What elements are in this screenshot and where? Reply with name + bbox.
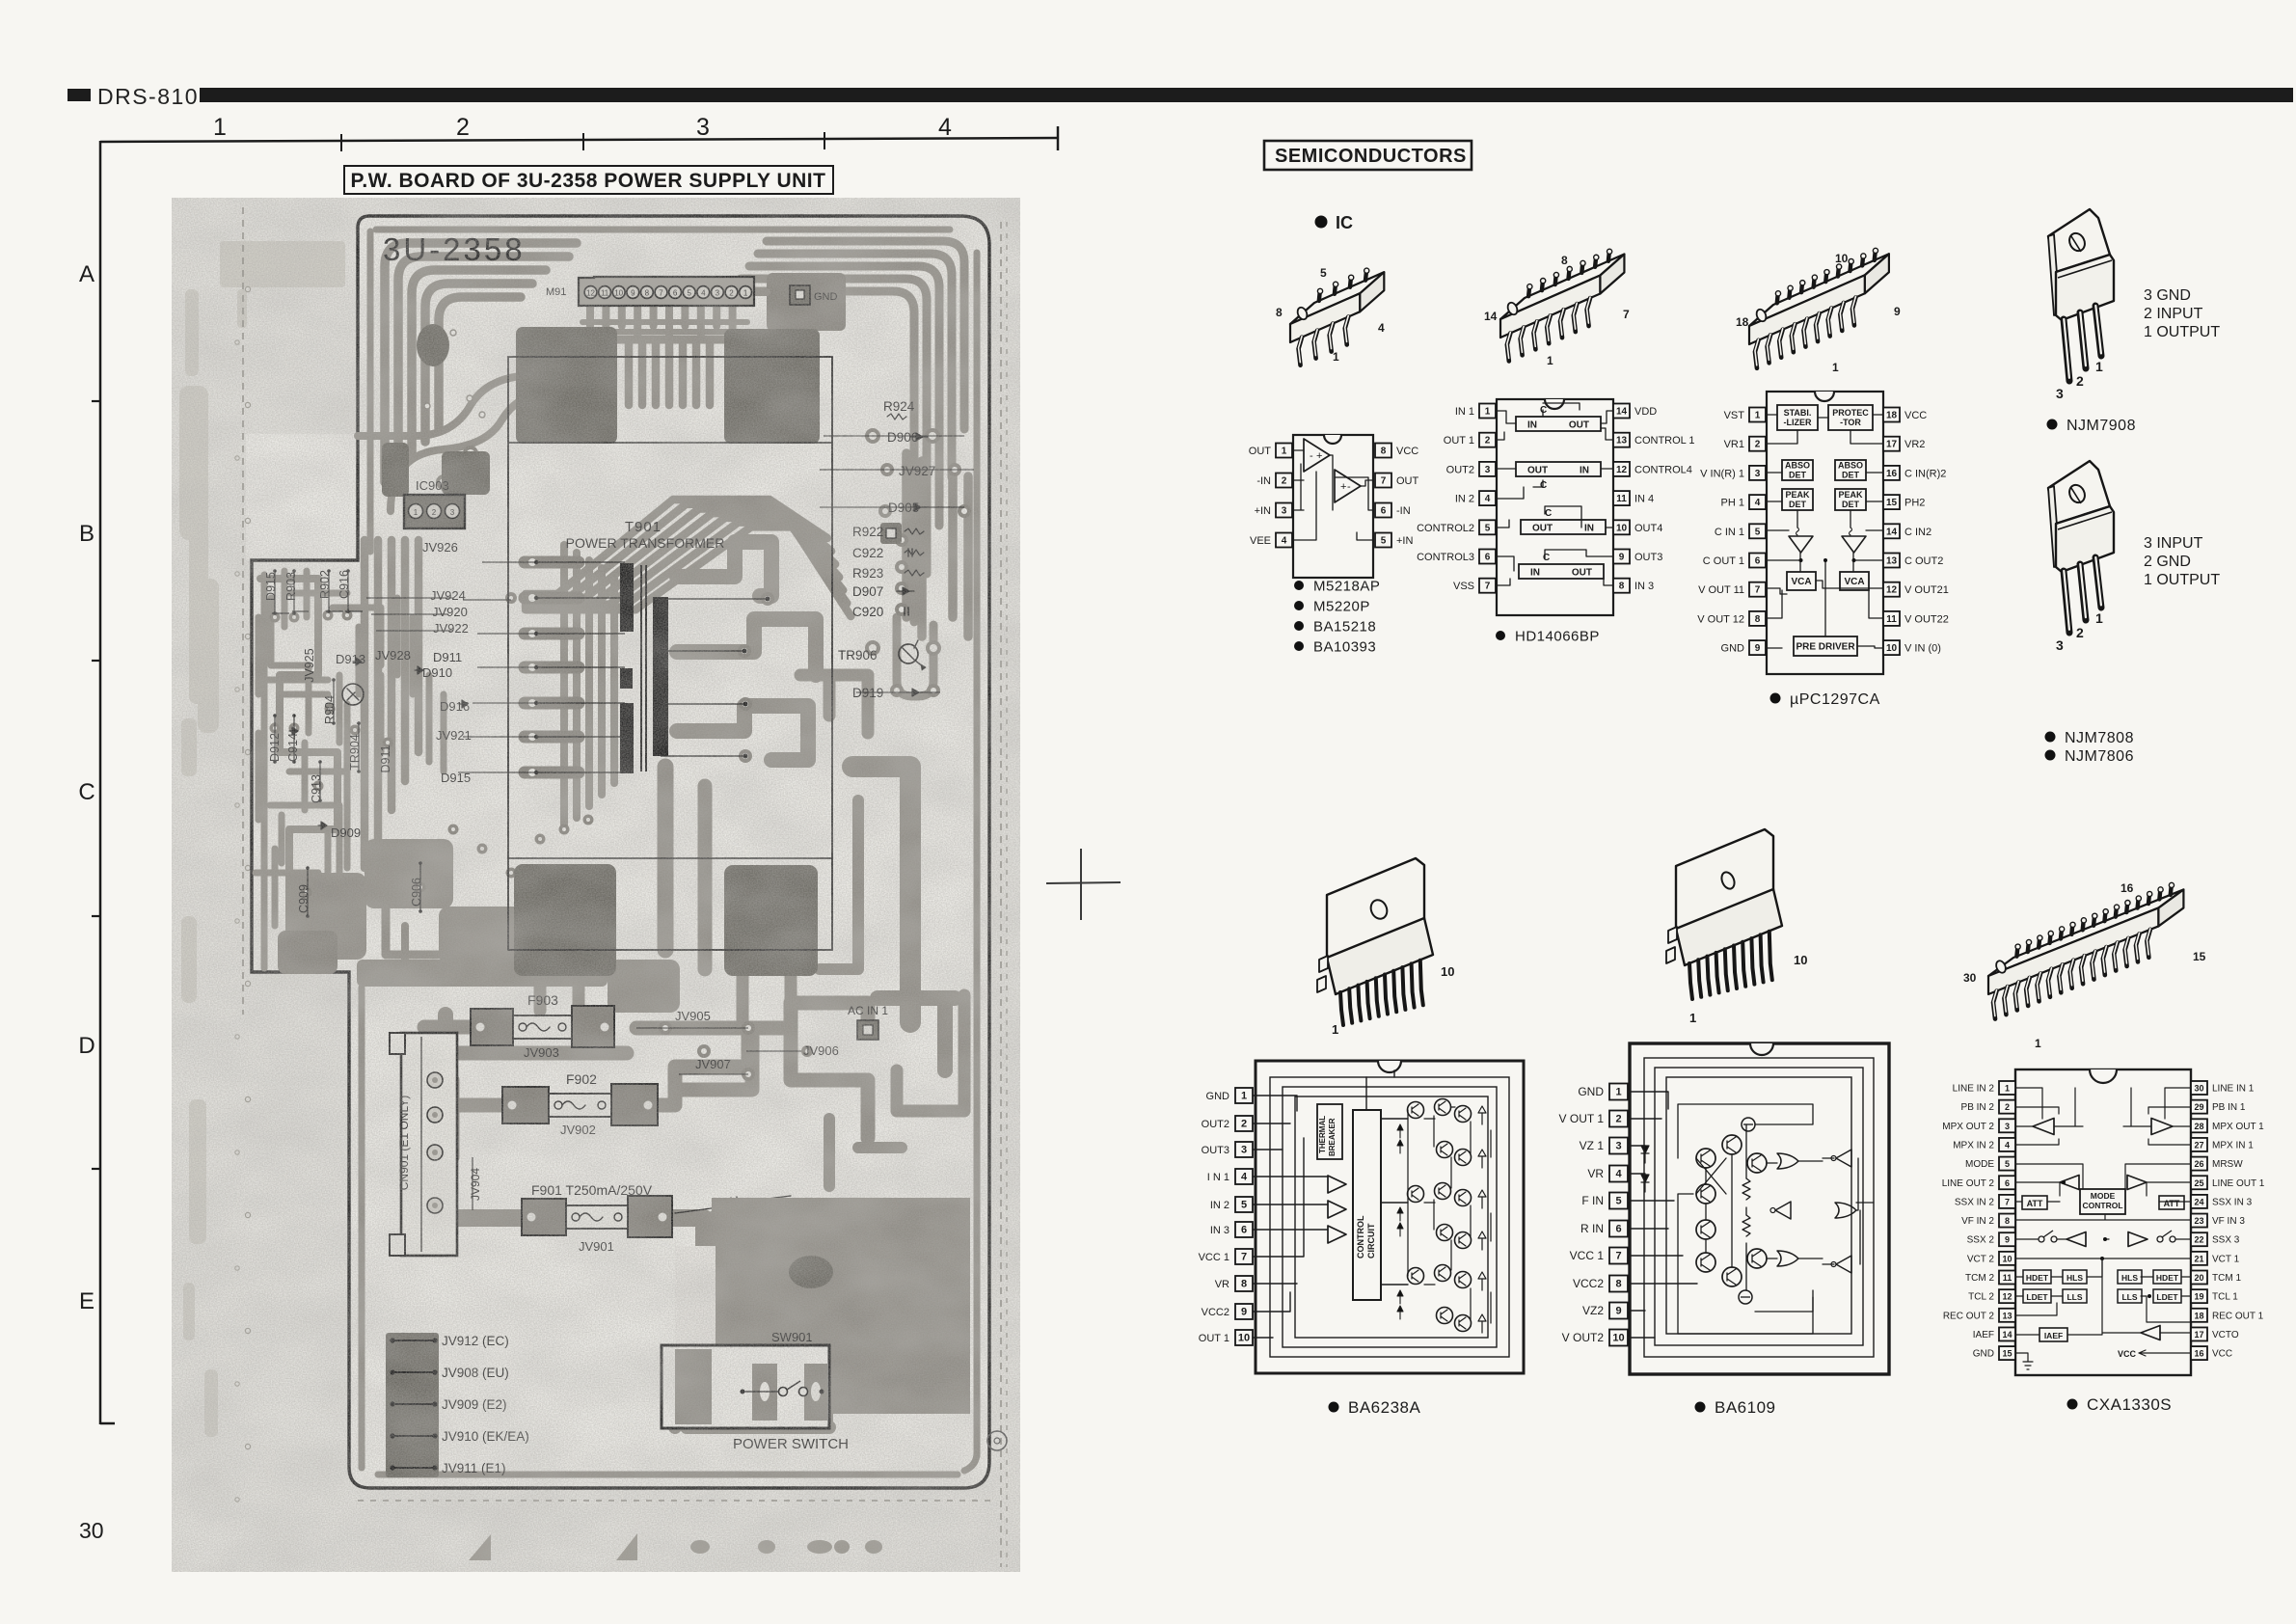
HD14066BP pin 4 (1479, 491, 1496, 505)
svg-text:PB IN 2: PB IN 2 (1961, 1102, 1995, 1113)
svg-text:M5220P: M5220P (1313, 598, 1370, 614)
CXA1330S mpx amps (2033, 1119, 2054, 1135)
ghost bleed-through marks (185, 289, 199, 376)
BA6238A diodes (1478, 1106, 1486, 1124)
svg-text:7: 7 (2005, 1197, 2010, 1206)
svg-text:V OUT 12: V OUT 12 (1697, 613, 1744, 625)
ground ring trace (376, 227, 950, 233)
svg-text:8: 8 (1276, 306, 1283, 319)
svg-text:8: 8 (1241, 1279, 1247, 1290)
BA6238A pin 7 (1235, 1249, 1253, 1264)
svg-text:C IN2: C IN2 (1904, 527, 1931, 538)
svg-text:C OUT 1: C OUT 1 (1703, 555, 1744, 567)
CXA1330S pin 24 (2191, 1195, 2207, 1208)
svg-text:OUT: OUT (1527, 466, 1548, 476)
svg-text:ATT: ATT (2164, 1199, 2180, 1208)
switch symbol (741, 1390, 745, 1394)
svg-text:7: 7 (1485, 582, 1491, 592)
BA6238A pin 4 (1235, 1169, 1253, 1184)
film dashed edge left (242, 207, 244, 1015)
svg-text:17: 17 (2194, 1330, 2203, 1340)
svg-text:THERMAL: THERMAL (1318, 1116, 1327, 1153)
svg-text:LDET: LDET (2156, 1292, 2178, 1302)
BA6238A pin 10 (1235, 1330, 1253, 1345)
svg-text:1: 1 (1282, 447, 1287, 457)
NJM7908 name (2047, 420, 2058, 430)
svg-text:C IN 1: C IN 1 (1715, 527, 1744, 538)
CXA1330S iaef block (2039, 1328, 2067, 1341)
svg-text:SEMICONDUCTORS: SEMICONDUCTORS (1275, 146, 1467, 167)
svg-text:VR: VR (1215, 1279, 1229, 1290)
trace wrap around GND pad (767, 273, 846, 331)
svg-text:25: 25 (2194, 1178, 2203, 1188)
svg-text:10: 10 (1835, 252, 1849, 265)
svg-text:VCC 1: VCC 1 (1199, 1252, 1229, 1263)
svg-text:BA6238A: BA6238A (1348, 1398, 1420, 1417)
svg-text:R IN: R IN (1580, 1222, 1604, 1235)
svg-text:9: 9 (1615, 1306, 1621, 1317)
SEMICONDUCTORS heading box (1264, 141, 1472, 170)
CXA1330S mode control (2080, 1189, 2125, 1214)
BA6238A name (1329, 1402, 1339, 1413)
trace diagonal bundle (526, 500, 827, 594)
uPC1297CA pin 11 (1883, 611, 1900, 626)
svg-text:DET: DET (1789, 471, 1807, 480)
svg-text:7: 7 (1623, 308, 1630, 321)
svg-text:VR: VR (1587, 1167, 1604, 1180)
svg-text:VSS: VSS (1453, 581, 1474, 592)
svg-text:C: C (1545, 508, 1552, 519)
svg-text:15: 15 (2193, 950, 2206, 963)
svg-text:13: 13 (2002, 1311, 2012, 1320)
svg-text:1: 1 (1689, 1011, 1696, 1025)
protrusion pads (270, 612, 281, 623)
svg-text:5: 5 (1381, 536, 1387, 547)
svg-text:9: 9 (2005, 1235, 2010, 1245)
svg-text:D: D (78, 1033, 95, 1059)
svg-text:OUT: OUT (1572, 568, 1592, 579)
BA6238A control circuit (1353, 1110, 1381, 1300)
CXA1330S pin 21 (2191, 1252, 2207, 1265)
svg-text:30: 30 (1963, 971, 1977, 985)
fuse F901 (522, 1199, 566, 1235)
svg-text:HLS: HLS (2066, 1273, 2083, 1283)
svg-text:ABSO: ABSO (1838, 461, 1863, 471)
uPC1297CA abso det R (1835, 460, 1866, 480)
svg-text:12: 12 (1886, 585, 1898, 596)
svg-text:2: 2 (456, 114, 470, 141)
svg-text:3: 3 (1282, 506, 1287, 517)
svg-text:OUT: OUT (1249, 446, 1272, 457)
svg-text:VCC2: VCC2 (1573, 1277, 1604, 1290)
svg-text:10: 10 (1612, 1333, 1624, 1344)
BA6109 pin 4 (1609, 1166, 1628, 1182)
svg-text:C: C (78, 779, 95, 805)
svg-text:10: 10 (1616, 523, 1628, 533)
svg-text:MPX IN 1: MPX IN 1 (2212, 1140, 2254, 1150)
svg-text:1: 1 (2095, 610, 2103, 626)
HD14066BP pin 8 (1613, 579, 1630, 593)
svg-text:VR1: VR1 (1724, 439, 1744, 450)
svg-text:5: 5 (1485, 523, 1491, 533)
svg-text:MPX OUT 1: MPX OUT 1 (2212, 1122, 2264, 1132)
HD14066BP pin 2 (1479, 433, 1496, 447)
BA6109 inverters (1836, 1150, 1851, 1167)
svg-text:I N 1: I N 1 (1207, 1172, 1229, 1183)
svg-text:VCT 2: VCT 2 (1967, 1254, 1995, 1264)
svg-text:12: 12 (2002, 1292, 2012, 1302)
svg-text:4: 4 (1378, 321, 1385, 335)
uPC1297CA pin 15 (1883, 495, 1900, 509)
capacitor symbols right column (905, 608, 908, 615)
diode symbols right column (910, 433, 928, 441)
svg-text:VR2: VR2 (1904, 439, 1925, 450)
svg-text:10: 10 (1238, 1333, 1250, 1344)
GND pad (790, 285, 810, 305)
trace arcs joining connector (358, 376, 577, 436)
HD14066BP pin 7 (1479, 579, 1496, 593)
transformer core bars (620, 563, 634, 632)
svg-text:IN 2: IN 2 (1210, 1200, 1229, 1211)
CXA1330S pin 13 (1999, 1309, 2015, 1322)
fuse F903 (471, 1009, 513, 1045)
svg-text:HDET: HDET (2026, 1273, 2049, 1283)
wires right column (824, 435, 964, 437)
svg-text:GND: GND (1721, 643, 1745, 655)
BA6109 pin 6 (1609, 1221, 1628, 1237)
svg-text:+: + (1340, 481, 1346, 493)
svg-text:3: 3 (2056, 386, 2064, 401)
svg-text:7: 7 (1615, 1251, 1621, 1262)
svg-text:1: 1 (1332, 1022, 1338, 1037)
svg-text:PEAK: PEAK (1785, 490, 1810, 500)
CXA1330S pin 11 (1999, 1271, 2015, 1285)
HD14066BP pin 13 (1613, 433, 1630, 447)
svg-text:4: 4 (1282, 536, 1287, 547)
svg-text:2: 2 (1485, 436, 1491, 447)
svg-text:3: 3 (696, 114, 710, 141)
svg-text:9: 9 (1619, 553, 1625, 563)
uPC1297CA pin 8 (1749, 611, 1766, 626)
svg-text:C OUT2: C OUT2 (1904, 555, 1943, 567)
svg-text:OUT4: OUT4 (1634, 523, 1662, 534)
svg-text:VCC2: VCC2 (1202, 1307, 1229, 1318)
svg-text:5: 5 (1755, 527, 1761, 537)
svg-text:2: 2 (1282, 476, 1287, 487)
svg-text:2: 2 (2076, 373, 2084, 389)
uPC1297CA vca L (1787, 572, 1816, 590)
HD14066BP switch 4 (1519, 564, 1604, 579)
M5218AP pin 5 (1375, 533, 1391, 548)
svg-text:29: 29 (2194, 1102, 2203, 1112)
svg-text:7: 7 (1381, 476, 1387, 487)
BA6238A pin 8 (1235, 1276, 1253, 1291)
svg-text:MODE: MODE (1965, 1159, 1994, 1170)
dark block bottom-left (514, 864, 616, 976)
svg-text:DET: DET (1842, 500, 1860, 509)
CXA1330S pin 26 (2191, 1157, 2207, 1171)
svg-text:OUT: OUT (1569, 420, 1589, 431)
jumper JV911 (392, 1467, 436, 1469)
svg-text:NJM7908: NJM7908 (2066, 418, 2136, 434)
svg-text:M5218AP: M5218AP (1313, 578, 1380, 594)
svg-text:17: 17 (1886, 440, 1898, 450)
package BA6238A pins (1340, 992, 1343, 1025)
CXA1330S pin 2 (1999, 1100, 2015, 1114)
svg-text:9: 9 (1241, 1307, 1247, 1318)
registration circle bottom right (987, 1431, 1007, 1450)
CXA1330S pin 4 (1999, 1138, 2015, 1151)
svg-text:14: 14 (2002, 1330, 2012, 1340)
svg-text:20: 20 (2194, 1273, 2203, 1283)
svg-text:VCC: VCC (1904, 410, 1927, 421)
grid frame left vertical line (99, 141, 102, 1424)
HD14066BP pin 6 (1479, 550, 1496, 564)
svg-text:6: 6 (1381, 506, 1387, 517)
large pour right-mid (852, 767, 910, 1022)
uPC1297CA pin 16 (1883, 466, 1900, 480)
svg-text:5: 5 (2005, 1159, 2010, 1169)
svg-text:VEE: VEE (1250, 535, 1271, 547)
transistor TR904 symbol (342, 684, 364, 705)
svg-text:GND: GND (1578, 1085, 1604, 1098)
svg-text:C IN(R)2: C IN(R)2 (1904, 468, 1946, 479)
svg-text:5: 5 (1241, 1200, 1247, 1211)
motor driver BA6109 body (1630, 1043, 1889, 1374)
svg-text:TCL 1: TCL 1 (2212, 1292, 2238, 1303)
package NJM7908 body (2056, 255, 2114, 320)
component wires left area (274, 571, 276, 613)
BA6109 pin 10 (1609, 1330, 1628, 1346)
M5218AP op-amp B (1335, 470, 1361, 502)
CXA1330S pin 29 (2191, 1100, 2207, 1114)
svg-text:IN: IN (1580, 466, 1589, 476)
grid row ticks (92, 400, 100, 402)
scan scraps bottom (469, 1534, 491, 1560)
svg-text:VCA: VCA (1791, 577, 1811, 587)
svg-text:CONTROL 1: CONTROL 1 (1634, 435, 1695, 447)
svg-text:LINE IN 2: LINE IN 2 (1953, 1084, 1995, 1095)
svg-text:VZ 1: VZ 1 (1580, 1139, 1605, 1152)
svg-text:+IN: +IN (1396, 535, 1413, 547)
svg-text:11: 11 (1886, 614, 1897, 625)
uPC1297CA pin 7 (1749, 582, 1766, 597)
IC903 component (404, 495, 465, 528)
connector strip outline (579, 277, 754, 306)
svg-text:24: 24 (2194, 1197, 2203, 1206)
package NJM7808 pins (2064, 571, 2069, 633)
svg-text:BA10393: BA10393 (1313, 638, 1376, 655)
svg-text:IAEF: IAEF (2044, 1331, 2063, 1340)
CXA1330S name (2067, 1399, 2078, 1410)
svg-text:-TOR: -TOR (1840, 418, 1861, 427)
uPC1297CA pin 6 (1749, 554, 1766, 568)
svg-text:14: 14 (1484, 310, 1498, 323)
svg-text:2: 2 (2076, 625, 2084, 640)
CXA1330S pin 15 (1999, 1346, 2015, 1360)
svg-text:1: 1 (1241, 1091, 1247, 1102)
svg-text:5: 5 (1320, 266, 1327, 280)
HD14066BP pin 10 (1613, 520, 1630, 534)
CXA1330S pin 9 (1999, 1232, 2015, 1246)
svg-text:1 OUTPUT: 1 OUTPUT (2144, 324, 2220, 340)
svg-text:PH2: PH2 (1904, 498, 1925, 509)
svg-text:2: 2 (2005, 1102, 2010, 1112)
svg-text:1: 1 (1755, 411, 1761, 421)
svg-text:REC OUT 2: REC OUT 2 (1943, 1311, 1995, 1321)
svg-text:8: 8 (2005, 1216, 2010, 1226)
scan grain overlay (172, 198, 1020, 1572)
svg-text:1: 1 (1547, 354, 1553, 367)
svg-text:LLS: LLS (2066, 1292, 2082, 1302)
svg-text:22: 22 (2194, 1235, 2203, 1245)
grid ruler tick 1-2 (340, 134, 342, 151)
M5218AP pin 8 (1375, 444, 1391, 458)
bright film void left of board (246, 434, 358, 560)
protrusion area traces (260, 579, 357, 926)
BA6109 pin 3 (1609, 1138, 1628, 1154)
M5218AP wires (1293, 450, 1304, 510)
svg-text:VZ2: VZ2 (1582, 1304, 1604, 1317)
svg-text:ABSO: ABSO (1785, 461, 1810, 471)
svg-text:-IN: -IN (1256, 475, 1271, 487)
svg-text:TCM 1: TCM 1 (2212, 1273, 2241, 1284)
svg-text:A: A (79, 261, 95, 287)
resistor symbols right column (887, 414, 906, 420)
BA6238A pin 5 (1235, 1197, 1253, 1212)
trace bundle left of transformer (560, 545, 568, 829)
svg-text:2: 2 (1615, 1114, 1621, 1125)
driver IC BA6238A body (1256, 1061, 1524, 1373)
transformer terminal wires (536, 561, 625, 563)
trace staple near TR906 (897, 617, 933, 696)
transistor TR906 symbol (899, 644, 918, 663)
protrusion pour blobs (289, 873, 366, 960)
uPC1297CA pin 12 (1883, 582, 1900, 597)
svg-text:7: 7 (1241, 1252, 1247, 1263)
svg-text:3: 3 (1755, 469, 1761, 479)
svg-text:1: 1 (2035, 1037, 2041, 1050)
title box P.W. BOARD (344, 166, 833, 194)
svg-text:15: 15 (2002, 1349, 2012, 1359)
dark block bottom-right (724, 865, 818, 976)
svg-text:IAEF: IAEF (1973, 1330, 1994, 1340)
svg-text:9: 9 (1755, 643, 1761, 654)
package DIP18 back pins (1777, 293, 1778, 303)
svg-text:DET: DET (1842, 471, 1860, 480)
trace vertical bundle right side (902, 453, 911, 617)
svg-text:REC OUT 1: REC OUT 1 (2212, 1311, 2264, 1321)
package DIP18 front pins (1755, 340, 1759, 368)
BA6109 or gates (1777, 1153, 1798, 1169)
svg-text:VCA: VCA (1844, 577, 1864, 587)
svg-text:LINE OUT 2: LINE OUT 2 (1942, 1178, 1995, 1189)
HD14066BP wires (1497, 411, 1613, 423)
HD14066BP pin 11 (1613, 491, 1630, 505)
CXA1330S pin 16 (2191, 1346, 2207, 1360)
IC uPC1297CA body (1767, 392, 1883, 674)
HD14066BP pin 3 (1479, 462, 1496, 476)
svg-text:IN: IN (1584, 524, 1594, 534)
header block square (68, 89, 91, 101)
svg-text:VF IN 2: VF IN 2 (1961, 1216, 1994, 1227)
CXA1330S ssx amps (2066, 1232, 2086, 1247)
connector fan-out traces (586, 307, 594, 326)
svg-text:26: 26 (2194, 1159, 2203, 1169)
grid ruler tick 3-4 (824, 132, 825, 149)
svg-text:2 GND: 2 GND (2144, 554, 2191, 570)
grid ruler horizontal line (100, 138, 1059, 142)
svg-text:11: 11 (1616, 494, 1627, 504)
uPC1297CA pin 2 (1749, 437, 1766, 451)
svg-text:BA15218: BA15218 (1313, 618, 1376, 635)
svg-text:VCC: VCC (2212, 1349, 2232, 1360)
svg-text:2: 2 (1241, 1119, 1247, 1130)
svg-text:10: 10 (1886, 643, 1898, 654)
svg-text:8: 8 (1381, 447, 1387, 457)
svg-text:9: 9 (1894, 305, 1901, 318)
svg-text:LLS: LLS (2121, 1292, 2137, 1302)
HD14066BP switch 3 (1521, 520, 1606, 534)
via holes (424, 403, 430, 409)
fuse F902 (502, 1087, 549, 1123)
svg-text:4: 4 (1755, 498, 1761, 508)
package BA6109 SIP (1676, 829, 1773, 935)
uPC1297CA pin 17 (1883, 437, 1900, 451)
svg-text:OUT: OUT (1532, 524, 1553, 534)
uPC1297CA pre driver (1794, 636, 1857, 656)
transformer winding stubs (525, 556, 579, 569)
svg-text:BREAKER: BREAKER (1328, 1118, 1337, 1156)
BA6238A input buffers (1328, 1176, 1346, 1193)
svg-text:VCT 1: VCT 1 (2212, 1254, 2240, 1264)
svg-text:PB IN 1: PB IN 1 (2212, 1102, 2246, 1113)
CXA1330S att boxes (2022, 1196, 2047, 1209)
svg-text:21: 21 (2194, 1254, 2203, 1263)
uPC1297CA wires (1767, 415, 1883, 418)
CXA1330S pin 20 (2191, 1271, 2207, 1285)
svg-text:8: 8 (1619, 582, 1625, 592)
M5218AP pin 2 (1276, 474, 1292, 488)
svg-text:4: 4 (1485, 494, 1491, 504)
svg-text:DET: DET (1789, 500, 1807, 509)
svg-text:IN 3: IN 3 (1210, 1225, 1229, 1236)
transformer T901 outline box (508, 357, 832, 950)
package DIP14 body (1500, 254, 1624, 319)
M5218AP pin 6 (1375, 503, 1391, 518)
CXA1330S wires (2015, 1088, 2059, 1126)
svg-text:TCL 2: TCL 2 (1968, 1292, 1994, 1303)
svg-text:14: 14 (1616, 407, 1628, 418)
CXA1330S det blocks (2023, 1270, 2051, 1284)
svg-text:MRSW: MRSW (2212, 1159, 2243, 1170)
svg-text:LINE OUT 1: LINE OUT 1 (2212, 1178, 2265, 1189)
package DIP8 front pins (1299, 338, 1303, 365)
jumper JV908 (392, 1371, 436, 1373)
CXA1330S pin 18 (2191, 1309, 2207, 1322)
svg-text:3: 3 (2005, 1122, 2010, 1131)
svg-text:1: 1 (1615, 1087, 1621, 1098)
svg-text:1: 1 (1832, 361, 1839, 374)
CXA1330S pin 5 (1999, 1157, 2015, 1171)
CXA1330S pin 12 (1999, 1289, 2015, 1303)
svg-text:16: 16 (1886, 469, 1898, 479)
switch SW901 box (662, 1345, 829, 1428)
BA6238A pin 6 (1235, 1222, 1253, 1237)
package NJM7808 tab (2048, 461, 2110, 524)
BA6109 pin 9 (1609, 1303, 1628, 1319)
svg-text:VDD: VDD (1634, 406, 1657, 418)
